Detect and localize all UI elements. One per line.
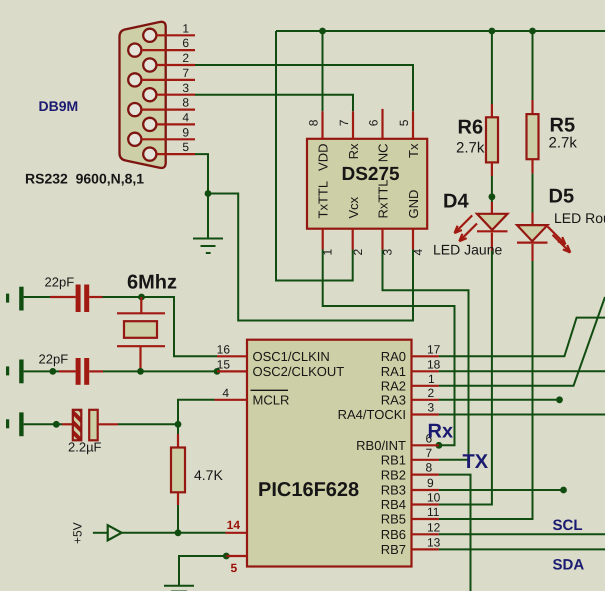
- power rail top: [276, 30, 605, 32]
- svg-text:16: 16: [217, 342, 231, 356]
- wire D5 to PIC RB5: [439, 261, 533, 519]
- svg-text:4.7K: 4.7K: [194, 467, 223, 483]
- MCLR overline: [251, 389, 289, 391]
- svg-text:10: 10: [427, 491, 441, 505]
- wire RA0: [439, 318, 605, 357]
- D5 light arrows: [548, 227, 571, 253]
- wire MCLR net: [178, 400, 215, 434]
- node 6Mhz / crystal top: [138, 294, 145, 301]
- node +5V / 4.7K: [175, 529, 182, 536]
- svg-text:RB4: RB4: [381, 497, 406, 512]
- svg-text:TxTTL: TxTTL: [315, 181, 330, 219]
- capacitor C1 22pF: [50, 296, 76, 298]
- PIC right pin numbers: [426, 342, 441, 549]
- svg-text:RA2: RA2: [381, 379, 406, 394]
- svg-text:18: 18: [427, 357, 441, 371]
- svg-text:5: 5: [397, 119, 411, 126]
- connector J1 DB9M body: [120, 22, 166, 168]
- svg-text:8: 8: [307, 119, 321, 126]
- svg-text:RS232 9600,N,8,1: RS232 9600,N,8,1: [25, 171, 144, 187]
- ground below DB9: [193, 239, 223, 254]
- svg-text:15: 15: [217, 357, 231, 371]
- crystal X1: [140, 297, 142, 313]
- wire PIC pin5 to ground: [179, 556, 226, 586]
- svg-text:RB7: RB7: [381, 542, 406, 557]
- svg-text:RxTTL: RxTTL: [375, 180, 390, 219]
- svg-text:RB0/INT: RB0/INT: [356, 438, 406, 453]
- DS275 pin numbers bottom: [321, 249, 425, 256]
- wire RB7 SDA: [439, 548, 605, 550]
- svg-text:1: 1: [182, 21, 189, 35]
- svg-text:Rx: Rx: [428, 421, 454, 443]
- svg-text:7: 7: [337, 119, 351, 126]
- svg-text:8: 8: [182, 96, 189, 110]
- svg-text:17: 17: [427, 342, 441, 356]
- svg-text:LED Rouge: LED Rouge: [554, 210, 605, 226]
- svg-text:2: 2: [182, 51, 189, 65]
- svg-text:RB5: RB5: [381, 512, 406, 527]
- DS275 top pin stubs 8,7,6,5: [323, 109, 414, 139]
- IC U1 PIC16F628 body: [247, 340, 412, 567]
- svg-text:DS275: DS275: [342, 164, 401, 185]
- resistor R6: [491, 104, 493, 117]
- wire rail to R6: [491, 31, 493, 104]
- ground below PIC: [164, 586, 194, 591]
- wire terminal to C3: [24, 423, 62, 425]
- wire R6 to D4: [491, 176, 493, 202]
- wire DB9 pin2 to DS275 Tx: [195, 65, 413, 111]
- svg-text:2.2µF: 2.2µF: [68, 440, 102, 455]
- wire RA3: [439, 399, 560, 401]
- node terminal 2: [49, 368, 56, 375]
- wire RB3: [439, 489, 564, 491]
- svg-text:13: 13: [427, 535, 441, 549]
- svg-text:R6: R6: [458, 117, 484, 139]
- capacitor C3 2.2uF polarized: [62, 423, 73, 425]
- wire RA2: [439, 297, 605, 386]
- svg-text:3: 3: [182, 81, 189, 95]
- svg-text:22pF: 22pF: [45, 275, 75, 290]
- svg-text:VDD: VDD: [315, 144, 330, 171]
- node rail / R5: [529, 28, 536, 35]
- terminal T2 (bottom 22pF): [6, 360, 24, 384]
- svg-text:RA1: RA1: [381, 364, 406, 379]
- node DB9 pin5 / GND junction: [205, 190, 212, 197]
- D4 light arrows: [455, 215, 478, 241]
- svg-text:2: 2: [428, 386, 435, 400]
- svg-text:PIC16F628: PIC16F628: [258, 479, 359, 501]
- capacitor C2 22pF: [59, 370, 76, 372]
- svg-text:14: 14: [227, 518, 241, 532]
- svg-text:+5V: +5V: [71, 522, 85, 544]
- wire GND net to DS275 pin4: [208, 194, 413, 321]
- resistor R5: [531, 100, 533, 114]
- svg-text:5: 5: [231, 561, 238, 575]
- svg-text:3: 3: [428, 401, 435, 415]
- svg-text:4: 4: [182, 111, 189, 125]
- svg-text:RA3: RA3: [381, 393, 406, 408]
- wire RA4: [439, 414, 605, 416]
- node OSC2 wire: [214, 368, 221, 375]
- DB9M pin leads: [141, 35, 195, 154]
- node pin5: [223, 553, 230, 560]
- svg-text:RB2: RB2: [381, 467, 406, 482]
- wire R5 to D5: [532, 174, 534, 213]
- svg-text:DB9M: DB9M: [39, 98, 79, 114]
- node RB3 end: [560, 487, 567, 494]
- svg-text:OSC2/CLKOUT: OSC2/CLKOUT: [253, 364, 345, 379]
- PIC right pin names: [338, 349, 406, 557]
- wire D4 to PIC RB4: [439, 251, 492, 505]
- svg-text:Tx: Tx: [406, 143, 421, 158]
- wire rail to R5: [532, 31, 534, 100]
- svg-text:9: 9: [182, 125, 189, 139]
- DS275 pin labels top row: [315, 143, 421, 171]
- svg-text:SDA: SDA: [553, 557, 585, 574]
- LED D5: [531, 213, 533, 226]
- PIC left pin numbers: [217, 342, 231, 400]
- wire rail to DS275 pin8 VDD: [322, 31, 324, 111]
- wire RA1: [439, 370, 605, 372]
- wire DB9 pin5 to ground: [195, 154, 208, 238]
- node terminal 3: [53, 421, 60, 428]
- wire DS275 RxTTL to PIC RB1: [383, 250, 469, 460]
- svg-text:Vcx: Vcx: [346, 196, 361, 218]
- svg-text:11: 11: [427, 505, 440, 519]
- node RA3 end: [556, 396, 563, 403]
- svg-text:TX: TX: [463, 451, 489, 473]
- wire RB2 down: [439, 475, 471, 591]
- node rail / DS275 VDD: [319, 28, 326, 35]
- svg-text:4: 4: [411, 249, 425, 256]
- node MCLR / C3 / R pullup: [175, 421, 182, 428]
- resistor R pullup 4.7K: [177, 434, 179, 448]
- svg-text:6Mhz: 6Mhz: [127, 272, 177, 294]
- wire C3 to MCLR net: [118, 423, 178, 425]
- wire 4.7K to +5V net: [177, 505, 179, 533]
- svg-text:2: 2: [351, 249, 365, 256]
- PIC right pin stubs: [412, 356, 439, 549]
- wire terminal to C1: [24, 296, 50, 298]
- svg-text:SCL: SCL: [553, 517, 583, 534]
- svg-text:GND: GND: [406, 190, 421, 219]
- PIC left pin names: [253, 349, 345, 408]
- node RB0 junction: [436, 442, 443, 449]
- svg-text:22pF: 22pF: [39, 352, 69, 367]
- svg-text:RB1: RB1: [381, 453, 406, 468]
- svg-text:2.7k: 2.7k: [549, 135, 578, 152]
- power terminal +5V: [93, 532, 108, 534]
- svg-text:12: 12: [427, 520, 441, 534]
- svg-text:1: 1: [321, 249, 335, 256]
- wire C1 to OSC1 node: [103, 297, 218, 356]
- svg-text:Rx: Rx: [346, 143, 361, 159]
- svg-text:RA0: RA0: [381, 349, 406, 364]
- svg-text:7: 7: [426, 446, 433, 460]
- wire rail to DS275 pin2 Vcx: [276, 31, 353, 281]
- PIC left pin stubs: [215, 356, 248, 556]
- node crystal bottom: [137, 368, 144, 375]
- svg-text:9: 9: [427, 476, 434, 490]
- wire C2 / crystal to OSC2: [103, 370, 217, 372]
- wire +5V to PIC pin14: [122, 532, 226, 534]
- svg-text:R5: R5: [550, 115, 576, 137]
- terminal T3 (2.2uF): [6, 412, 24, 436]
- wire RB6 SCL: [439, 533, 605, 535]
- DS275 pin numbers top: [307, 119, 412, 126]
- svg-text:6: 6: [367, 119, 381, 126]
- DB9M pin numbers: [182, 21, 189, 154]
- terminal T1 (top 22pF): [6, 287, 24, 311]
- svg-text:6: 6: [182, 36, 189, 50]
- wire DS275 TxTTL to PIC RB0: [323, 250, 455, 446]
- DS275 pin labels bottom row: [315, 180, 421, 219]
- svg-text:RB6: RB6: [381, 527, 406, 542]
- svg-text:D5: D5: [549, 186, 575, 208]
- node rail / R6: [489, 28, 496, 35]
- svg-text:NC: NC: [375, 144, 390, 163]
- svg-text:2.7k: 2.7k: [456, 140, 485, 157]
- svg-text:RB3: RB3: [381, 483, 406, 498]
- svg-text:1: 1: [428, 372, 435, 386]
- svg-text:OSC1/CLKIN: OSC1/CLKIN: [253, 349, 330, 364]
- svg-text:D4: D4: [443, 191, 469, 213]
- svg-text:4: 4: [222, 386, 229, 400]
- wire terminal to C2: [24, 370, 59, 372]
- svg-text:8: 8: [426, 461, 433, 475]
- svg-text:3: 3: [381, 249, 395, 256]
- node R6/D4: [489, 193, 496, 200]
- wire DB9 pin3 to DS275 Rx: [195, 95, 353, 112]
- svg-text:MCLR: MCLR: [253, 393, 290, 408]
- svg-text:7: 7: [182, 66, 189, 80]
- DS275 bottom pin stubs 1,2,3,4: [323, 229, 413, 250]
- svg-text:RA4/TOCKI: RA4/TOCKI: [338, 407, 406, 422]
- LED D4: [491, 202, 493, 214]
- DB9M pin circles: [128, 29, 156, 161]
- svg-text:5: 5: [182, 140, 189, 154]
- IC U2 DS275 body: [307, 139, 427, 229]
